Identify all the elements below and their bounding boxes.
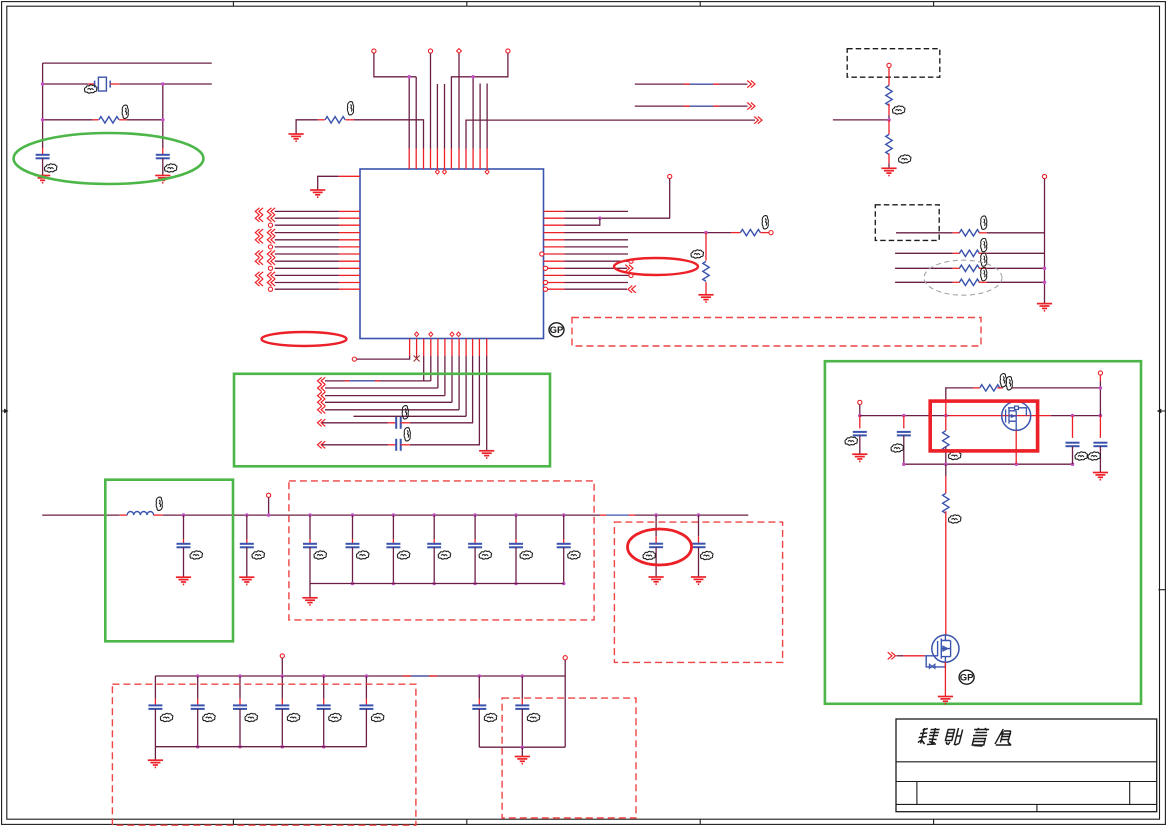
capacitor C6 red stub xyxy=(246,539,248,544)
svg-text:GP: GP xyxy=(960,673,974,684)
resistor R4 red stub top xyxy=(705,233,707,261)
junction cap bank1 #1 xyxy=(308,513,312,517)
pin circle at edge row12 xyxy=(543,287,547,291)
ground under C1 xyxy=(35,176,50,183)
capacitor bank1 C7 xyxy=(309,515,311,539)
IC U1 top-left ground pin wire xyxy=(318,176,339,190)
ground left of R2 xyxy=(289,134,304,141)
label capacitor CR1 scribble xyxy=(1075,452,1088,460)
right pin row12 wire xyxy=(565,288,628,290)
junction bottom bus #5 xyxy=(473,582,477,586)
label capacitor C21 scribble xyxy=(371,713,384,721)
junction bottom bank bus #5 xyxy=(322,745,326,749)
label inductor L1 scribble xyxy=(156,497,162,510)
blue net highlight on bus row1 xyxy=(350,380,376,382)
junction cap bank1 #2 xyxy=(351,513,355,517)
label capacitor C2 scribble xyxy=(164,164,177,172)
resistor R3 right red pin xyxy=(761,232,769,234)
cap row A right wire xyxy=(410,356,473,423)
ground under CR2 xyxy=(1093,473,1108,480)
capacitor C4 plates xyxy=(396,439,401,451)
grey dashed ellipse annotation xyxy=(924,260,1002,295)
capacitor C17 xyxy=(197,676,199,699)
junction cap bank1 #3 xyxy=(392,513,396,517)
divider bottom wire xyxy=(888,164,890,169)
mosfet Q2 gate wire xyxy=(896,655,903,657)
label capacitor C7 scribble xyxy=(314,551,327,559)
junction P1 rail xyxy=(858,414,862,418)
divider mid wire xyxy=(888,115,890,120)
rail red-blue-red highlight xyxy=(600,514,606,516)
resistor R3 left red pin xyxy=(731,232,740,234)
wire crystal right to node xyxy=(119,83,167,85)
GP circled label at IC corner xyxy=(549,323,564,337)
rail left segment xyxy=(860,415,949,417)
capacitor CR2 red stub xyxy=(1099,416,1101,438)
capacitor CL1 red stub xyxy=(859,416,861,429)
resistor R2 zigzag xyxy=(325,117,345,123)
label capacitor C11 scribble xyxy=(479,551,492,559)
junction bottom bank #6 xyxy=(365,674,369,678)
mosfet Q2 source red down xyxy=(944,662,946,696)
net line pair upper xyxy=(635,83,748,85)
terminal circle above row2 xyxy=(668,174,672,178)
label resistor R1 scribble xyxy=(122,105,128,118)
terminal circle above rail xyxy=(267,493,271,497)
ground under right caps xyxy=(515,757,530,764)
chevron net line upper xyxy=(747,81,755,88)
resistor R12 zigzag xyxy=(980,385,1000,391)
IC top pin red stubs x12 xyxy=(408,149,410,170)
wire resistor row right xyxy=(127,119,163,121)
bus rows inside green box xyxy=(325,380,431,382)
wire top pin1 up xyxy=(408,77,410,149)
green box power circuit xyxy=(825,361,1141,704)
wire crystal row to the right xyxy=(167,83,212,85)
mosfet Q2 gate chevron xyxy=(888,652,896,659)
svg-text:GP: GP xyxy=(550,325,564,336)
rail wire through cap bank xyxy=(289,514,600,516)
capacitor bank1 C9 xyxy=(392,515,394,539)
resistor R4 red stub bottom xyxy=(705,282,707,295)
capacitor CL2 wire lower xyxy=(903,435,905,464)
labels R7-R10 scribbles xyxy=(981,216,987,229)
wire T2 down to pin4 xyxy=(430,53,432,148)
capacitor C2 lower wire xyxy=(162,158,164,175)
black dashed box mid right xyxy=(875,205,939,241)
wire terminal to rail xyxy=(268,497,270,515)
junction bottom bank bus #2 xyxy=(196,745,200,749)
label crystal Y1 scribble xyxy=(84,85,97,93)
GP circled label near Q2 xyxy=(959,670,974,684)
junction bottom bus #3 xyxy=(392,582,396,586)
junction divider xyxy=(887,118,891,122)
right pin row4 wire long xyxy=(565,232,732,234)
junction R11 rail xyxy=(944,414,948,418)
label capacitor C8 scribble xyxy=(356,551,369,559)
wire terminal to bottom bus xyxy=(281,658,283,676)
capacitor C5 red stub xyxy=(183,539,185,544)
terminal circle right of R3 xyxy=(769,231,773,235)
wire from ground to R2 xyxy=(296,120,318,134)
wire R12 to right node xyxy=(1011,387,1100,389)
label capacitor C16 scribble xyxy=(160,713,173,721)
junction bottom bank bus #3 xyxy=(238,745,242,749)
capacitor C1 red stub xyxy=(42,148,44,155)
title block outer xyxy=(896,719,1157,812)
wire left vertical node XIN xyxy=(42,63,44,148)
inductor L1 coils xyxy=(127,511,153,515)
resistor rows R7-R10 xyxy=(896,232,953,234)
rail wire inside green box xyxy=(163,514,234,516)
capacitor C14 xyxy=(655,515,657,536)
capacitor bank1 C8 xyxy=(352,515,354,539)
capacitor C4 left red pin xyxy=(388,444,396,446)
capacitor C3 left red pin xyxy=(388,422,396,424)
right pin row8 wire xyxy=(565,260,629,262)
capacitor C22 xyxy=(478,676,480,699)
wire top pin2 up xyxy=(415,77,417,149)
capacitor CR1 red stub xyxy=(1072,416,1074,438)
junction cap C15 rail xyxy=(697,513,701,517)
chevron right end of pin9 net xyxy=(754,117,762,124)
wire top pin10 up xyxy=(472,77,474,149)
resistor R1 zigzag xyxy=(99,117,119,123)
resistor R2 right red pin xyxy=(345,119,354,121)
capacitor CL2 plates xyxy=(897,432,911,436)
bus row chevrons xyxy=(318,377,326,384)
ground under C14 xyxy=(649,577,664,584)
junction cap bank1 #5 xyxy=(473,513,477,517)
wire crystal row left segment xyxy=(43,83,89,85)
ground at IC top-left xyxy=(310,190,325,197)
terminal circle above bottom bus xyxy=(280,654,284,658)
red annotation ellipse on row9 xyxy=(614,258,698,275)
bottom bus blue highlight xyxy=(403,675,411,677)
resistor R5 zigzag vertical xyxy=(886,85,892,105)
cap bank1 ground drop xyxy=(309,584,311,598)
mosfet Q1 drain down red xyxy=(1015,430,1017,464)
terminal circle right bottom xyxy=(563,656,567,660)
ground under cap bank1 xyxy=(302,598,317,605)
right pin row5 wire xyxy=(565,239,629,241)
junction cap bank1 #6 xyxy=(514,513,518,517)
border zone ticks xyxy=(232,2,234,7)
junction bottom rail mosfet xyxy=(1015,462,1019,466)
wire row2 vertical up xyxy=(669,179,671,219)
capacitor C2 plates xyxy=(156,155,170,159)
resistor R11 zigzag vertical xyxy=(943,431,949,451)
cap row A left wire xyxy=(322,422,388,424)
junction bottom bus #4 xyxy=(432,582,436,586)
rail wire to end xyxy=(635,514,748,516)
top resistor R12 wire corner xyxy=(946,388,973,402)
capacitor C2 red stub xyxy=(162,148,164,155)
junction node XIN/crystal xyxy=(41,82,45,86)
no-connect X on bottom pin2 xyxy=(414,356,420,362)
capacitor C6 wire lower xyxy=(246,547,248,577)
label resistor R4 scribble xyxy=(691,250,704,258)
right pin row1 wire xyxy=(565,210,629,212)
right border small tick xyxy=(1158,589,1165,591)
chevron right row9 xyxy=(625,265,633,272)
right pin row3 wire xyxy=(565,218,600,225)
mosfet Q2 circle xyxy=(932,635,959,662)
capacitor CL2 red stub xyxy=(903,416,905,429)
label resistor R12 scribble xyxy=(1000,374,1006,387)
ground in green box xyxy=(479,451,494,458)
IC left pin chevrons and terminals xyxy=(255,208,263,215)
junction cap C5 xyxy=(182,513,186,517)
capacitor bank1 C11 xyxy=(474,515,476,539)
capacitor CL1 plates xyxy=(853,432,867,436)
capacitor C6 plates xyxy=(240,544,254,548)
wire right bottom corner xyxy=(564,660,566,747)
junction cap C6 xyxy=(245,513,249,517)
label capacitor CR2 scribble xyxy=(1088,452,1101,460)
capacitor C15 xyxy=(698,515,700,536)
label capacitor C10 scribble xyxy=(438,551,451,559)
label capacitor C17 scribble xyxy=(203,713,216,721)
capacitor C5 plates xyxy=(177,544,191,548)
junction R9 right xyxy=(1043,267,1047,271)
red annotation rect around Q1 xyxy=(930,401,1037,451)
junction top pin10 xyxy=(471,75,475,79)
junction bottom bank bus #4 xyxy=(281,745,285,749)
red dashed box cap bank 1 xyxy=(289,481,594,620)
right pin row9 wire xyxy=(565,267,628,269)
label capacitor CL2 scribble xyxy=(891,444,904,452)
bottom pin2 stub xyxy=(416,356,418,358)
wire P1 to rail xyxy=(859,405,861,416)
inductor L1 right red pin xyxy=(154,514,163,516)
terminal circle above resistor column xyxy=(1042,174,1046,178)
label resistor R5 scribble xyxy=(892,106,905,114)
crystal Y1 symbol xyxy=(95,77,111,91)
green box around L1 C5 xyxy=(105,480,233,642)
red annotation ellipse bottom-left of IC xyxy=(262,332,347,346)
pin circle at edge row7 xyxy=(540,252,544,256)
right pin row11 wire xyxy=(565,282,629,284)
IC bottom pin red stubs x12 xyxy=(409,339,411,356)
junction capR1 rail xyxy=(1071,414,1075,418)
mosfet Q2 internals xyxy=(938,635,951,662)
junction caps right #1 xyxy=(478,674,482,678)
IC bottom edge pin diamonds xyxy=(415,332,461,337)
green annotation ellipse around C1 C2 xyxy=(14,133,204,184)
capacitor C5 wire upper xyxy=(183,515,185,539)
bottom bank ground drop xyxy=(154,747,156,760)
wire top pin9 to right net xyxy=(466,120,755,148)
resistor R12 left red pin xyxy=(973,387,980,389)
capacitor bank1 C10 xyxy=(433,515,435,539)
junction right lower bus xyxy=(521,745,525,749)
junction cap bank1 #7 xyxy=(562,513,566,517)
capacitor C3 right red pin xyxy=(401,422,410,424)
resistor R13 zigzag vertical xyxy=(943,493,949,513)
terminal circle left of bottom pin1 xyxy=(352,357,356,361)
ground under C15 xyxy=(691,577,706,584)
label capacitor C23 scribble xyxy=(527,713,540,721)
right pin row2 wire to vertical xyxy=(565,217,671,219)
wire right vertical node XOUT xyxy=(162,84,164,148)
capacitor C6 wire upper xyxy=(246,515,248,539)
mosfet Q1 circle xyxy=(1002,401,1031,430)
label capacitor C22 scribble xyxy=(484,713,497,721)
terminal circle T2 above IC xyxy=(428,49,432,53)
junction bottom bank #2 xyxy=(196,674,200,678)
rail right segment xyxy=(1051,415,1101,417)
label resistor R13 scribble xyxy=(948,515,961,523)
wire top pin7 up xyxy=(450,77,452,149)
pin circle at edge row9 xyxy=(543,266,547,270)
wire T4 down and left xyxy=(451,53,508,77)
net line pair lower xyxy=(635,105,748,107)
label capacitor C3 scribble xyxy=(402,406,408,419)
terminal circle divider top xyxy=(887,63,891,67)
junction capL2 rail xyxy=(902,414,906,418)
terminal circle T1 above IC xyxy=(372,49,376,53)
divider lower red wire xyxy=(888,120,890,134)
cap row B right wire xyxy=(410,356,480,445)
capacitor CR1 plates xyxy=(1066,443,1080,447)
rail wire from left xyxy=(42,514,120,516)
wire top pin11 up xyxy=(479,84,481,149)
red dashed box bottom right xyxy=(502,698,636,818)
ground under Q2 xyxy=(938,697,953,704)
divider branch wire left xyxy=(833,119,889,121)
junction bottom bank #3 xyxy=(238,674,242,678)
crystal Y1 right red pin xyxy=(110,83,119,85)
wire below bottom rail xyxy=(945,464,947,476)
right pin row7 wire xyxy=(565,253,629,255)
IC top edge pin diamonds xyxy=(435,170,489,175)
ground under C6 xyxy=(239,577,254,584)
junction bottom bank #4 xyxy=(281,674,285,678)
bottom bus wire xyxy=(155,675,565,677)
title text Wistron kanji xyxy=(917,728,940,745)
black dashed box top right xyxy=(847,49,940,77)
cap row B left wire xyxy=(322,444,388,446)
IC left pin red segments x12 xyxy=(339,210,360,212)
long red wire to Q2 xyxy=(945,511,947,635)
wire top net Y1 upper xyxy=(43,62,212,64)
cap bank1 bottom bus xyxy=(310,583,564,585)
label capacitor C5 scribble xyxy=(190,551,203,559)
red dashed annotation rect right of IC xyxy=(572,318,981,347)
resistor R1 right red pin xyxy=(119,119,127,121)
left border arrow tick xyxy=(2,410,7,413)
junction top pin1 xyxy=(407,75,411,79)
wire top pin5 up xyxy=(436,84,438,149)
label capacitor C14 scribble xyxy=(643,551,656,559)
junction row4 divider xyxy=(704,231,708,235)
red dashed box cap pair xyxy=(614,522,782,662)
resistor R11 lower wire xyxy=(945,447,947,465)
wire resistor row left xyxy=(43,119,93,121)
label capacitor C9 scribble xyxy=(397,551,410,559)
IC U1 body xyxy=(360,169,544,339)
pin circle at edge row11 xyxy=(543,280,547,284)
ground under C5 xyxy=(176,577,191,584)
right pin row6 wire xyxy=(565,246,629,248)
label capacitor C12 scribble xyxy=(520,551,533,559)
wire P2 down red xyxy=(1099,375,1101,381)
resistor R1 left red pin xyxy=(93,119,99,121)
capacitor C21 xyxy=(365,676,367,699)
wire top pin6 up xyxy=(444,84,446,149)
crystal Y1 left red pin xyxy=(88,83,94,85)
wire T3 down to pin8 xyxy=(458,53,460,148)
label capacitor C18 scribble xyxy=(245,713,258,721)
capacitor C1 lower wire xyxy=(42,158,44,175)
bottom bank lower bus xyxy=(155,746,366,748)
terminal diamond T3 above IC xyxy=(457,49,462,54)
capacitor bank1 C12 xyxy=(515,515,517,539)
mosfet Q2 gate trace blue xyxy=(925,656,946,667)
capacitor CR2 plates xyxy=(1093,443,1107,447)
ground under R4 xyxy=(698,295,713,302)
resistor R6 zigzag vertical xyxy=(886,134,892,154)
label resistor R11 scribble xyxy=(948,451,961,459)
junction node XOUT/crystal xyxy=(161,82,165,86)
capacitor C19 xyxy=(281,676,283,699)
junction terminal rail xyxy=(267,513,271,517)
resistor R11 red stub xyxy=(945,416,947,431)
mosfet Q1 internals xyxy=(1006,406,1027,430)
rail red segment through mosfet xyxy=(949,415,1051,417)
junction R10 right xyxy=(1043,281,1047,285)
junction bottom rail left xyxy=(902,462,906,466)
label resistor R3 scribble xyxy=(762,216,768,229)
ground under bottom bank xyxy=(148,760,163,767)
terminal circle P1 xyxy=(858,400,862,404)
capacitor bank1 C13 xyxy=(563,515,565,539)
junction caps right #2 xyxy=(521,674,525,678)
resistor R3 zigzag xyxy=(740,229,760,235)
capacitor C23 xyxy=(521,676,523,699)
divider bottom red wire xyxy=(888,154,890,164)
ground under divider xyxy=(881,168,896,175)
green box around IC bottom bus xyxy=(234,374,550,467)
junction cap C14 rail xyxy=(654,513,658,517)
junction resistor row left xyxy=(41,118,45,122)
bottom pin1 wire to terminal xyxy=(357,356,410,359)
bottom pin12 wire to ground xyxy=(486,356,488,451)
ground under CL1 xyxy=(852,454,867,461)
IC right pin red stubs x12 xyxy=(544,210,565,212)
IC left pin wires x12 xyxy=(275,210,339,212)
label capacitor C15 scribble xyxy=(700,551,713,559)
capacitor C18 xyxy=(239,676,241,699)
title block dividers xyxy=(896,762,1157,812)
divider top red wire xyxy=(888,68,890,86)
chevron net line lower xyxy=(747,103,755,110)
resistor R4 zigzag vertical xyxy=(703,261,709,281)
junction bottom rail capR1 xyxy=(1071,462,1075,466)
rail wire to cap bank xyxy=(234,514,289,516)
cap row B chevron xyxy=(318,441,326,448)
label capacitor C13 scribble xyxy=(568,551,581,559)
junction bottom bus #7 xyxy=(562,582,566,586)
capacitor C20 xyxy=(323,676,325,699)
resistor R13 red stub top xyxy=(945,476,947,493)
junction bottom rail R11 xyxy=(944,462,948,466)
resistor R2 left red pin xyxy=(318,119,325,121)
terminal circle row10 xyxy=(629,273,633,277)
junction bottom bank #5 xyxy=(322,674,326,678)
bottom pins 3-9 verticals xyxy=(423,356,425,381)
